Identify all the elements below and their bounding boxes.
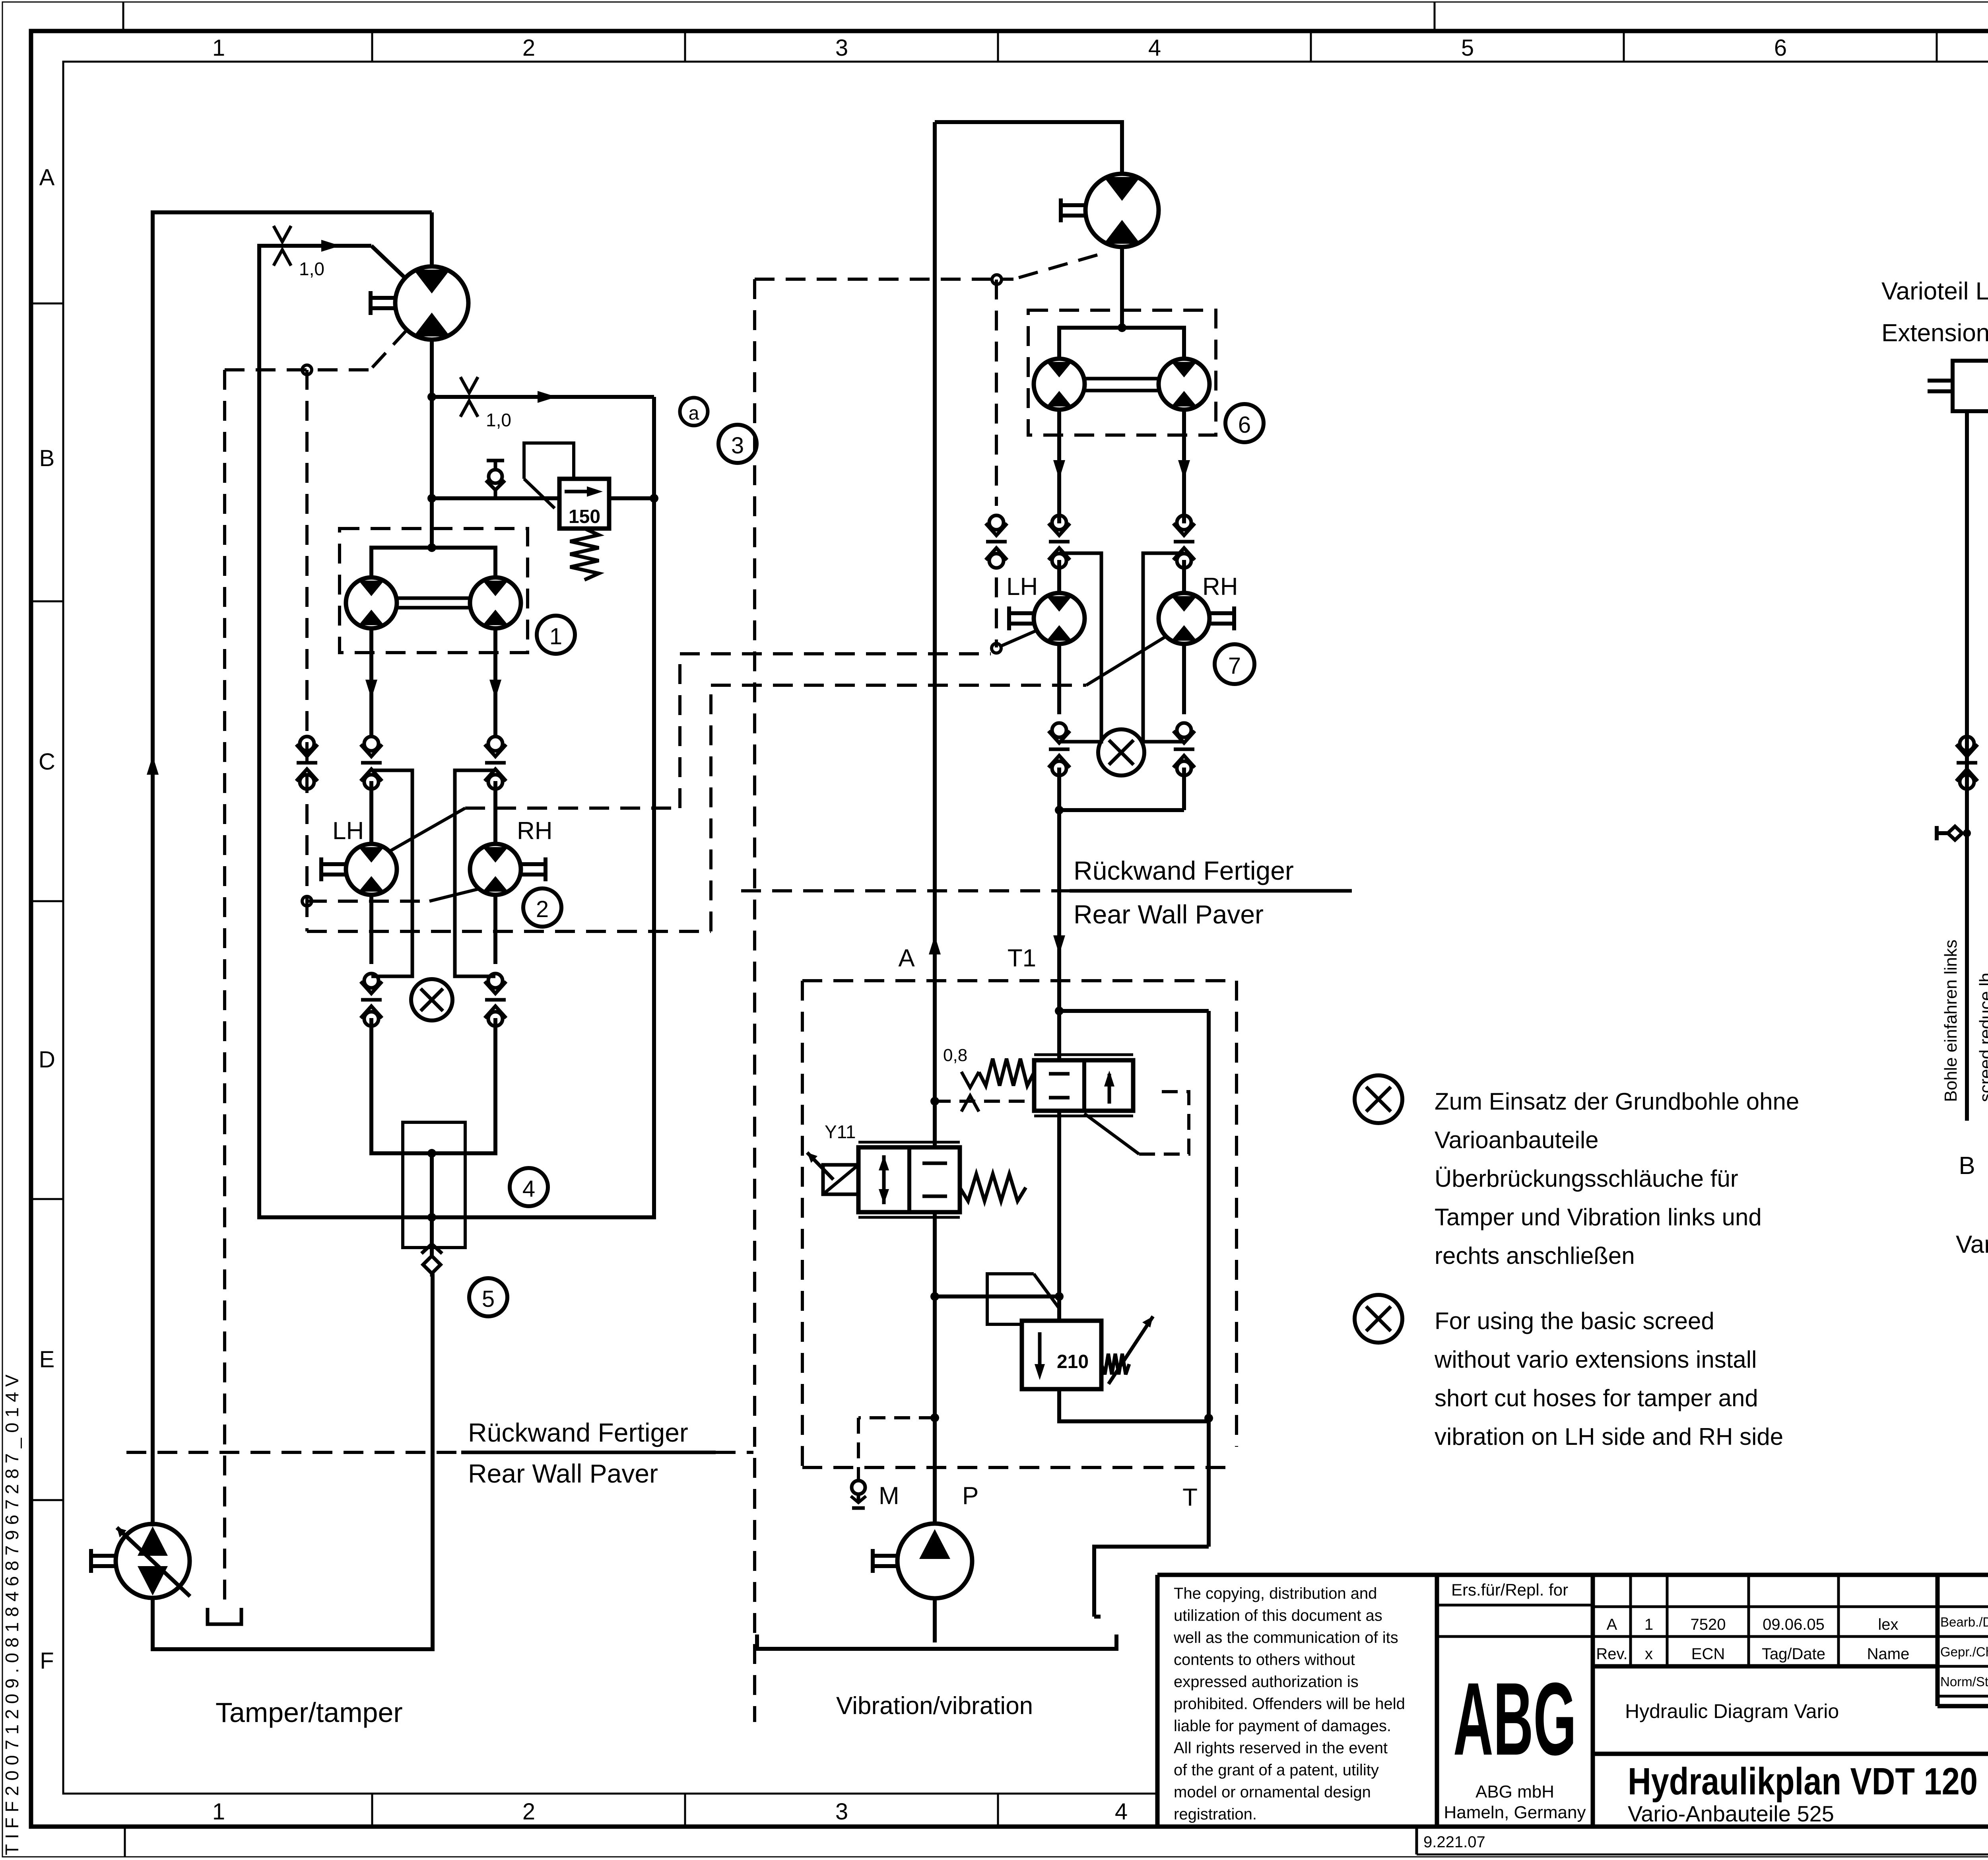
svg-text:expressed authorization is: expressed authorization is xyxy=(1174,1673,1359,1691)
pump P3 vibration supply xyxy=(873,1524,972,1642)
dashed control LH motor to vibration xyxy=(389,654,991,851)
wire: tamper motor outputs with arrows xyxy=(365,628,501,738)
svg-text:For using the basic screed: For using the basic screed xyxy=(1435,1308,1714,1334)
circle X tamper xyxy=(411,979,452,1020)
svg-text:Bearb./Drawn: Bearb./Drawn xyxy=(1940,1615,1988,1629)
svg-text:The copying, distribution and: The copying, distribution and xyxy=(1174,1585,1377,1602)
svg-text:Vario-Anbauteile 525: Vario-Anbauteile 525 xyxy=(1628,1801,1834,1826)
dashed control line from pump P1 xyxy=(225,330,407,371)
svg-text:Rev.: Rev. xyxy=(1596,1645,1627,1663)
label RH tamper xyxy=(517,817,553,845)
svg-text:well as the communication of i: well as the communication of its xyxy=(1173,1629,1398,1646)
svg-text:1,0: 1,0 xyxy=(486,410,511,430)
svg-text:Rear Wall Paver: Rear Wall Paver xyxy=(1074,900,1264,929)
solenoid valve Y11 xyxy=(858,1142,960,1217)
balloon 4 xyxy=(510,1168,548,1206)
svg-text:Hydraulic Diagram Vario: Hydraulic Diagram Vario xyxy=(1625,1700,1839,1722)
balloon 3 xyxy=(718,425,757,463)
revision row A xyxy=(1607,1616,1899,1633)
vertical file code text left margin xyxy=(2,1369,22,1855)
port letter B xyxy=(1959,1152,1975,1180)
pilot line of valve 0,8 xyxy=(1084,1092,1189,1154)
label Vibration xyxy=(836,1692,1033,1720)
pilot outline above relief valve 150 xyxy=(524,443,574,508)
motor M1a tamper left xyxy=(346,577,397,628)
svg-text:Hameln, Germany: Hameln, Germany xyxy=(1444,1803,1586,1822)
coupling pair tamper left line xyxy=(361,737,382,789)
column numbers top xyxy=(212,35,1988,61)
svg-text:B: B xyxy=(1959,1152,1975,1180)
wire: lines into vibration motors xyxy=(1059,560,1184,593)
svg-text:Bohle einfahren links: Bohle einfahren links xyxy=(1941,940,1961,1102)
svg-text:lex: lex xyxy=(1878,1616,1898,1633)
svg-text:Rückwand Fertiger: Rückwand Fertiger xyxy=(1074,856,1294,885)
svg-text:a: a xyxy=(689,403,699,424)
title Hydraulikplan VDT 120 xyxy=(1628,1760,1978,1803)
dashed valve block enclosure xyxy=(802,981,1237,1467)
dashed pilot stub from A line xyxy=(930,1097,1034,1106)
approval column labels xyxy=(1940,1581,1988,1710)
tamper frame rectangle xyxy=(259,246,654,1217)
svg-text:T: T xyxy=(1182,1484,1198,1511)
gauge port M symbol xyxy=(851,1481,866,1508)
motor LH tamper xyxy=(321,844,397,895)
svg-text:5: 5 xyxy=(1461,35,1474,61)
wire: variomatic line B 4947 xyxy=(1965,411,1969,1121)
svg-text:4: 4 xyxy=(522,1176,535,1202)
svg-text:2: 2 xyxy=(522,35,535,61)
revision header row xyxy=(1596,1645,1909,1663)
svg-text:LH: LH xyxy=(1006,573,1038,601)
rotated label Bohle einfahren links xyxy=(1941,940,1961,1102)
note text German xyxy=(1435,1088,1799,1269)
svg-text:TIFF20071209.08184687967287_01: TIFF20071209.08184687967287_014V xyxy=(2,1369,22,1855)
svg-text:2: 2 xyxy=(522,1799,535,1825)
svg-text:1,0: 1,0 xyxy=(299,258,324,279)
balloon 1 xyxy=(537,616,575,654)
label LH vibration xyxy=(1006,573,1038,601)
label Hameln Germany xyxy=(1444,1803,1586,1822)
svg-text:model or ornamental design: model or ornamental design xyxy=(1174,1784,1371,1801)
svg-text:Variomatik/Variomatic: Variomatik/Variomatic xyxy=(1956,1231,1988,1258)
row letters left xyxy=(39,165,55,1674)
wire: measuring line 1 with flow mark xyxy=(259,240,405,278)
svg-text:prohibited. Offenders will be: prohibited. Offenders will be held xyxy=(1174,1695,1405,1713)
label Ers fuer Repl for xyxy=(1451,1580,1568,1599)
svg-text:Gepr./Chkd.: Gepr./Chkd. xyxy=(1940,1644,1988,1659)
label RH vibration xyxy=(1202,573,1238,601)
dashed boundary line Rueckwand vibration xyxy=(741,889,1352,892)
measuring mark at valve 0,8 xyxy=(961,1072,979,1112)
relief valve 150 xyxy=(559,479,609,529)
svg-text:Tamper/tamper: Tamper/tamper xyxy=(215,1697,403,1728)
svg-text:Überbrückungsschläuche für: Überbrückungsschläuche für xyxy=(1435,1165,1738,1192)
coupling pair on line 4947 xyxy=(1956,737,1978,789)
subtitle Vario-Anbauteile 525 xyxy=(1628,1801,1834,1826)
coupling pair vibration right line xyxy=(1173,515,1195,568)
wire: link A to relief line xyxy=(935,1292,1064,1301)
note symbol X 2 xyxy=(1355,1295,1402,1343)
label M xyxy=(879,1482,899,1510)
svg-text:7520: 7520 xyxy=(1691,1616,1726,1633)
adjustment arrow relief 210 xyxy=(1101,1316,1153,1384)
rotated label screed reduce lh xyxy=(1976,973,1988,1102)
balloon 6 xyxy=(1225,404,1264,442)
bypass loop LH tamper motor xyxy=(371,770,412,976)
tank symbol xyxy=(208,1608,241,1624)
copyright text block xyxy=(1173,1585,1405,1823)
label T1 xyxy=(1008,945,1036,972)
svg-text:1: 1 xyxy=(1644,1616,1653,1633)
svg-text:C: C xyxy=(39,749,55,775)
dashed control drop to LH vibration motor xyxy=(992,280,1037,653)
wire: motor block top loop xyxy=(371,543,495,577)
relief valve 210 xyxy=(1022,1321,1101,1389)
bypass loop RH vibration motor xyxy=(1143,553,1184,742)
coupling pair tamper control line xyxy=(296,737,318,789)
wire: M gauge branch xyxy=(858,1413,939,1480)
dashed control RH route to vibration xyxy=(307,636,1166,931)
coupling pair vibration left line xyxy=(1048,515,1070,568)
motor LH vibration xyxy=(1009,593,1085,644)
motor RH tamper xyxy=(470,844,546,895)
svg-text:7: 7 xyxy=(1228,653,1241,679)
svg-text:RH: RH xyxy=(1202,573,1238,601)
label 0,8 xyxy=(943,1046,967,1065)
title block grid xyxy=(1157,1575,1988,1854)
measuring symbol V 1,0 lower xyxy=(460,377,511,430)
svg-text:screed reduce lh: screed reduce lh xyxy=(1976,973,1988,1102)
spring below relief valve 150 xyxy=(570,529,599,580)
wire: merge vibration returns to T1 xyxy=(1053,768,1184,954)
wire: merge to single return xyxy=(371,1018,495,1256)
svg-text:without vario extensions insta: without vario extensions install xyxy=(1434,1346,1757,1373)
top fold tick marks xyxy=(123,2,1435,1857)
coupling pair tamper right line xyxy=(485,737,506,789)
svg-text:210: 210 xyxy=(1057,1351,1089,1372)
svg-text:Zum Einsatz der Grundbohle ohn: Zum Einsatz der Grundbohle ohne xyxy=(1435,1088,1799,1115)
node circle on control line xyxy=(302,365,312,375)
label Hydraulic Diagram Vario xyxy=(1625,1700,1839,1722)
dashed enclosure motor block 1 xyxy=(340,529,528,653)
svg-text:A: A xyxy=(39,165,55,190)
svg-text:1: 1 xyxy=(212,1799,225,1825)
svg-text:T1: T1 xyxy=(1008,945,1036,972)
balloon 7 xyxy=(1215,644,1254,684)
wire: block 6 top loop xyxy=(1059,328,1184,359)
svg-text:M: M xyxy=(879,1482,899,1510)
svg-text:Tag/Date: Tag/Date xyxy=(1762,1645,1825,1663)
wire: measuring line 2 to frame right xyxy=(427,391,654,403)
measuring symbol V 1,0 upper xyxy=(274,226,324,279)
label Rear Wall Paver tamper xyxy=(468,1459,658,1488)
wire: relief valve branch line xyxy=(427,494,658,503)
svg-text:ABG: ABG xyxy=(1453,1662,1576,1777)
solenoid coil Y11 xyxy=(807,1153,858,1194)
wire: tamper bottom loop xyxy=(153,1273,433,1649)
svg-text:RH: RH xyxy=(517,817,553,845)
coupling pair lower vibration left xyxy=(1048,723,1070,775)
circle X vibration xyxy=(1098,729,1144,775)
svg-text:D: D xyxy=(39,1047,55,1073)
label 9.221.07 xyxy=(1423,1833,1485,1851)
svg-text:rechts anschließen: rechts anschließen xyxy=(1435,1242,1635,1269)
big dashed machine boundary vibration xyxy=(753,279,756,1722)
svg-text:Y11: Y11 xyxy=(825,1121,856,1142)
label Extension LH xyxy=(1881,319,1988,347)
bypass loop RH tamper motor xyxy=(455,770,495,976)
svg-text:liable for payment of damages.: liable for payment of damages. xyxy=(1174,1717,1391,1735)
coupling pair lower right xyxy=(485,974,506,1026)
svg-text:Name: Name xyxy=(1867,1645,1910,1663)
coupling pair on control line vibration xyxy=(986,515,1007,568)
svg-text:vibration on LH side and RH si: vibration on LH side and RH side xyxy=(1435,1423,1783,1450)
shaft link between block 6 motors xyxy=(1085,379,1159,391)
svg-text:9.221.07: 9.221.07 xyxy=(1423,1833,1485,1851)
motor M6b vibration right xyxy=(1159,359,1209,410)
svg-text:ABG mbH: ABG mbH xyxy=(1475,1782,1554,1802)
wire: tamper outer loop left xyxy=(153,212,432,1524)
valve block 4 outline xyxy=(403,1122,465,1248)
motor RH vibration xyxy=(1159,593,1234,644)
svg-text:LH: LH xyxy=(332,817,364,845)
svg-text:Extension LH: Extension LH xyxy=(1881,319,1988,347)
ABG logo xyxy=(1453,1662,1576,1777)
dashed enclosure motor block 6 xyxy=(1028,310,1216,435)
bypass loop LH vibration motor xyxy=(1059,553,1101,742)
vent symbol on relief branch xyxy=(486,461,505,498)
svg-text:3: 3 xyxy=(835,1799,848,1825)
label Rueckwand Fertiger vibration xyxy=(1074,856,1294,885)
wire: LH RH motor returns xyxy=(371,895,495,964)
pump P1 tamper drive motor xyxy=(371,212,468,548)
motor M6a vibration left xyxy=(1034,359,1085,410)
coupling pair lower left xyxy=(361,974,382,1026)
label Rear Wall Paver vibration xyxy=(1074,900,1264,929)
shaft link between tamper motors xyxy=(397,598,470,608)
svg-text:Varioanbauteile: Varioanbauteile xyxy=(1435,1127,1599,1153)
svg-text:All rights reserved in the eve: All rights reserved in the event xyxy=(1174,1739,1388,1757)
note symbol X 1 xyxy=(1355,1075,1402,1123)
svg-text:ECN: ECN xyxy=(1691,1645,1725,1663)
balloon 2 xyxy=(523,888,561,927)
svg-text:4: 4 xyxy=(1115,1799,1128,1825)
column grid lines top xyxy=(372,31,1988,62)
wire: block 6 outputs with arrows xyxy=(1053,410,1190,523)
svg-text:09.06.05: 09.06.05 xyxy=(1763,1616,1825,1633)
svg-text:utilization of this document a: utilization of this document as xyxy=(1174,1607,1382,1625)
svg-text:contents to others without: contents to others without xyxy=(1174,1651,1355,1669)
svg-text:0,8: 0,8 xyxy=(943,1046,967,1065)
balloon a xyxy=(680,398,708,426)
svg-text:2: 2 xyxy=(536,896,549,922)
svg-text:Rückwand Fertiger: Rückwand Fertiger xyxy=(468,1418,688,1447)
row boundary ticks left and right bands xyxy=(31,303,1988,1500)
svg-text:A: A xyxy=(898,945,915,972)
wire: return to bottom loop xyxy=(432,1273,433,1649)
svg-text:Vibration/vibration: Vibration/vibration xyxy=(836,1692,1033,1720)
label Tamper xyxy=(215,1697,403,1728)
wire: T1 to relief valve xyxy=(1057,1111,1061,1321)
motor M1b tamper right xyxy=(470,577,521,628)
note text English xyxy=(1434,1308,1783,1450)
svg-text:6: 6 xyxy=(1238,412,1251,438)
label Y11 xyxy=(825,1121,856,1142)
check valve 5 xyxy=(421,1244,442,1273)
dashed control from pump P2 xyxy=(755,255,1097,284)
pilot outline relief 210 xyxy=(987,1274,1059,1324)
label T xyxy=(1182,1484,1198,1511)
coupling pair lower vibration right xyxy=(1173,723,1195,775)
label ABG mbH xyxy=(1475,1782,1554,1802)
wire: relief output to T xyxy=(1059,1389,1209,1421)
svg-text:6: 6 xyxy=(1774,35,1787,61)
svg-text:5: 5 xyxy=(482,1286,495,1312)
svg-text:3: 3 xyxy=(731,433,744,459)
svg-text:P: P xyxy=(962,1482,978,1510)
svg-text:4: 4 xyxy=(1148,35,1161,61)
svg-text:of the grant of a patent, util: of the grant of a patent, utility xyxy=(1174,1761,1379,1779)
variable displacement pump tamper bottom xyxy=(91,1524,190,1598)
svg-text:1: 1 xyxy=(549,624,562,649)
dashed drain line to tank xyxy=(223,370,226,1607)
svg-text:3: 3 xyxy=(835,35,848,61)
balloon 5 xyxy=(469,1278,507,1316)
pilot operated valve 0,8 xyxy=(1034,1055,1133,1116)
label Variomatik xyxy=(1956,1231,1988,1258)
column numbers bottom xyxy=(212,1799,1128,1825)
wire: vibration top frame xyxy=(935,122,1122,174)
label LH tamper xyxy=(332,817,364,845)
svg-text:short cut hoses for tamper and: short cut hoses for tamper and xyxy=(1435,1385,1758,1411)
svg-text:Varioteil LH: Varioteil LH xyxy=(1881,278,1988,305)
svg-text:Rear Wall Paver: Rear Wall Paver xyxy=(468,1459,658,1488)
svg-text:Ers.für/Repl. for: Ers.für/Repl. for xyxy=(1451,1580,1568,1599)
wire: vibration motor returns xyxy=(1059,644,1184,714)
test point on line 4947 xyxy=(1937,826,1971,840)
svg-text:registration.: registration. xyxy=(1174,1806,1257,1823)
dashed control drop to RH motor xyxy=(302,370,479,931)
label Varioteil LH xyxy=(1881,278,1988,305)
svg-text:Norm/Stds.: Norm/Stds. xyxy=(1940,1674,1988,1689)
label Rueckwand Fertiger tamper xyxy=(468,1418,688,1447)
svg-text:Hydraulikplan VDT 120: Hydraulikplan VDT 120 xyxy=(1628,1760,1978,1803)
svg-text:150: 150 xyxy=(569,506,600,527)
svg-text:E: E xyxy=(39,1347,55,1372)
label A xyxy=(898,945,915,972)
column grid lines bottom xyxy=(372,1794,998,1827)
svg-text:A: A xyxy=(1607,1616,1617,1633)
spring left of valve 0,8 xyxy=(979,1059,1034,1086)
svg-text:1: 1 xyxy=(212,35,225,61)
wire: lines into LH RH motors xyxy=(371,781,495,844)
cylinder LH extension xyxy=(1928,361,1988,411)
bracket under vibration group xyxy=(757,1635,1116,1649)
svg-text:F: F xyxy=(40,1648,54,1674)
wire: T1 into valve block and bypass tee xyxy=(1055,954,1213,1547)
label P xyxy=(962,1482,978,1510)
svg-text:x: x xyxy=(1645,1645,1653,1663)
dashed boundary line Rueckwand tamper xyxy=(126,1451,753,1454)
wire: A line xyxy=(929,122,941,1147)
spring right of valve Y11 xyxy=(960,1174,1026,1201)
svg-text:Tamper und Vibration links und: Tamper und Vibration links und xyxy=(1435,1204,1762,1230)
wire: A line through valve to P port xyxy=(930,1212,939,1524)
pump P2 vibration drive motor xyxy=(1061,174,1159,332)
wire: T outlet xyxy=(1094,1547,1209,1617)
svg-text:B: B xyxy=(39,445,55,471)
arrow up on tamper return line xyxy=(147,756,159,775)
